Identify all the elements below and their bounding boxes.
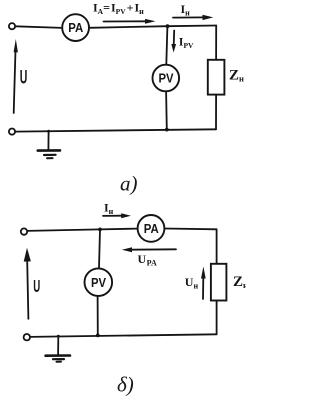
wire node down to PV (circuit b) xyxy=(99,229,100,268)
ground (circuit a) xyxy=(38,130,60,159)
svg-text:IA=IPV+Iн: IA=IPV+Iн xyxy=(93,1,144,17)
current arrow IA xyxy=(104,19,156,24)
voltage arrow U (circuit b) xyxy=(24,248,31,319)
wire PV to bottom wire (circuit b) xyxy=(97,296,99,335)
wire load to bottom corner xyxy=(215,95,217,130)
svg-text:a): a) xyxy=(120,172,138,196)
svg-text:UPA: UPA xyxy=(138,252,157,268)
wire corner down to load xyxy=(215,26,217,60)
terminal bottom-left circuit a xyxy=(9,129,15,135)
node junction (top, circuit a) xyxy=(166,24,170,28)
wire PV to bottom wire xyxy=(165,91,168,129)
svg-text:PA: PA xyxy=(68,20,84,35)
node junction (top, circuit b) xyxy=(98,228,102,232)
svg-text:U: U xyxy=(33,276,40,296)
svg-text:PV: PV xyxy=(91,275,106,290)
current arrow IN (circuit b) xyxy=(103,213,131,218)
current arrow IN (circuit a) xyxy=(173,15,213,20)
voltmeter PV (circuit b) xyxy=(85,268,113,296)
svg-text:IPV: IPV xyxy=(179,35,194,51)
wire terminal to node (circuit b) xyxy=(27,229,100,231)
svg-text:δ): δ) xyxy=(117,373,134,397)
load ZN (circuit b) xyxy=(211,264,227,301)
wire PA to node xyxy=(89,26,167,28)
svg-text:Zн: Zн xyxy=(233,274,246,290)
bottom wire (circuit b) xyxy=(30,334,216,337)
terminal top-left circuit a xyxy=(9,23,15,29)
voltage arrow UPA xyxy=(122,247,176,252)
load ZN (circuit a) xyxy=(208,60,225,95)
wire corner down to load (circuit b) xyxy=(216,229,218,263)
svg-text:Iн: Iн xyxy=(104,201,114,217)
voltage arrow U (circuit a) xyxy=(14,39,18,113)
voltmeter PV (circuit a) xyxy=(153,65,180,92)
ground (circuit b) xyxy=(46,335,70,362)
wire node to top-right corner xyxy=(168,25,217,28)
ammeter PA (circuit a) xyxy=(62,14,89,41)
ammeter PA (circuit b) xyxy=(138,215,165,242)
svg-text:PA: PA xyxy=(144,221,160,236)
wire node down to PV xyxy=(166,26,167,64)
current arrow IPV xyxy=(171,31,176,53)
terminal top-left circuit b xyxy=(21,228,27,234)
voltage arrow UN xyxy=(201,267,206,300)
svg-text:Uн: Uн xyxy=(185,275,199,291)
wire load to bottom corner (circuit b) xyxy=(216,301,218,335)
terminal bottom-left circuit b xyxy=(24,334,30,340)
svg-text:Zн: Zн xyxy=(229,67,244,83)
bottom wire (circuit a) xyxy=(15,129,216,131)
wire terminal to PA xyxy=(15,26,62,28)
wire PA to top-right corner (circuit b) xyxy=(165,228,217,231)
svg-text:U: U xyxy=(20,68,28,89)
svg-text:Iн: Iн xyxy=(181,2,191,18)
node junction (bottom, circuit a) xyxy=(165,128,169,132)
node junction (bottom, circuit b) xyxy=(96,334,100,338)
svg-text:PV: PV xyxy=(159,71,174,86)
wire node to PA (circuit b) xyxy=(100,228,138,231)
